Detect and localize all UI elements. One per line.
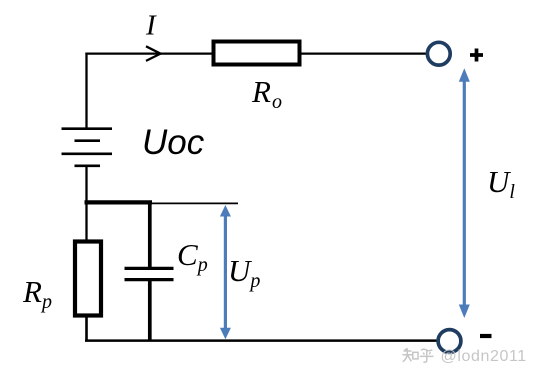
capacitor C1 bottom plate	[125, 278, 174, 281]
wire: bottom bus to minus terminal	[85, 339, 437, 342]
wire: left vertical from top corner to battery	[85, 53, 87, 129]
label +	[470, 49, 483, 62]
capacitor C1 top plate	[125, 267, 174, 270]
wire: Ro to plus terminal	[301, 52, 426, 54]
label -	[480, 334, 492, 338]
wire: Rp bottom to ground bus	[85, 315, 88, 340]
wire: battery to node A	[85, 166, 87, 240]
terminal minus (circle)	[438, 330, 461, 353]
svg-text:Cp: Cp	[177, 237, 208, 276]
terminal plus (circle)	[427, 42, 450, 65]
current arrow I	[146, 46, 161, 61]
capacitor C1 bottom lead	[148, 280, 152, 341]
node A: thick bus wire to Cp branch	[85, 200, 153, 204]
svg-text:I: I	[145, 10, 157, 42]
wire: top horizontal from corner to Ro	[85, 52, 212, 54]
resistor R2 (Rp)	[75, 242, 101, 316]
svg-text:Ul: Ul	[487, 164, 515, 203]
svg-text:Ro: Ro	[251, 74, 282, 113]
resistor R1 (Ro)	[214, 42, 300, 65]
battery V1 plate short bottom	[75, 164, 101, 167]
svg-text:@lodn2011: @lodn2011	[441, 348, 527, 365]
voltage arrow Up	[220, 205, 231, 339]
svg-text:Uoc: Uoc	[142, 123, 205, 162]
voltage arrow Ul	[459, 68, 470, 318]
battery V1 plate long bottom	[62, 152, 113, 155]
battery V1 plate short	[75, 139, 101, 142]
watermark zhihu logo glyphs	[403, 348, 434, 362]
svg-text:Up: Up	[228, 253, 260, 292]
svg-text:Rp: Rp	[22, 274, 52, 313]
wire: thin extension of node A to Up arrow	[152, 202, 238, 204]
battery V1 (Uoc) plate long top	[62, 127, 113, 130]
capacitor C1 (Cp) top lead	[148, 201, 152, 269]
